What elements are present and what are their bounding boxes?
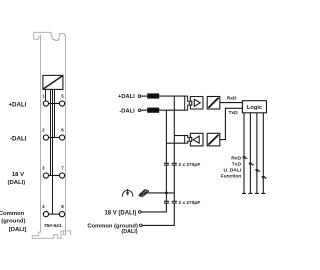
svg-text:(ground): (ground) [1, 219, 25, 225]
svg-text:TxD: TxD [228, 110, 238, 116]
svg-text:18 V (DALI): 18 V (DALI) [104, 210, 136, 216]
svg-text:Common: Common [0, 211, 25, 217]
svg-text:Function: Function [221, 174, 242, 180]
svg-text:Logic: Logic [247, 105, 262, 111]
svg-text:750-641: 750-641 [44, 223, 62, 229]
svg-text:2 x 270pF: 2 x 270pF [178, 162, 200, 168]
svg-text:(DALI): (DALI) [121, 229, 137, 235]
svg-text:2 x 270pF: 2 x 270pF [178, 200, 200, 206]
svg-text:TxD: TxD [232, 162, 242, 168]
svg-text:[DALI]: [DALI] [9, 227, 27, 233]
svg-text:+DALI: +DALI [118, 94, 135, 100]
svg-text:(DALI): (DALI) [8, 180, 26, 186]
svg-text:18 V: 18 V [12, 172, 24, 178]
svg-text:U_DALI: U_DALI [224, 167, 242, 173]
svg-text:+DALI: +DALI [8, 102, 26, 109]
svg-text:-DALI: -DALI [10, 135, 27, 142]
svg-text:RxD: RxD [231, 155, 241, 161]
svg-text:RxD: RxD [227, 96, 237, 102]
svg-text:-DALI: -DALI [119, 108, 135, 114]
